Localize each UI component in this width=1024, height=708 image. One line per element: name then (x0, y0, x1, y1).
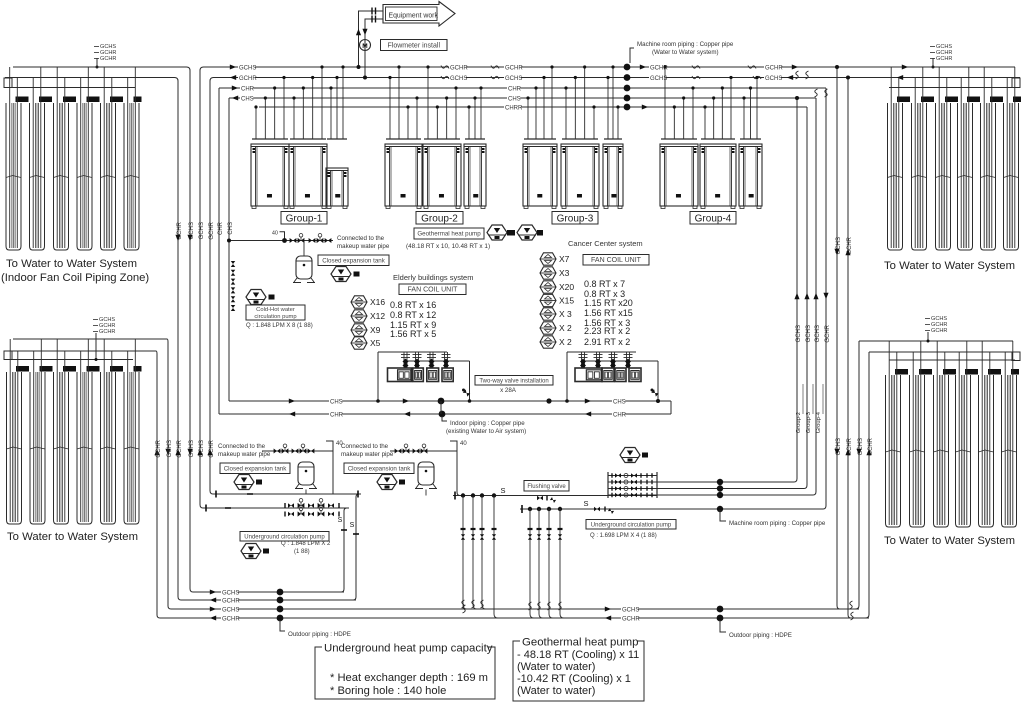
wire TR header line 3 (889, 87, 1015, 89)
break L2 x493 (491, 76, 499, 79)
borehole well TR3 (936, 103, 951, 250)
svg-text:CHS: CHS (241, 97, 254, 103)
well cap BL5 (110, 366, 123, 372)
svg-text:0.8 RT x 12: 0.8 RT x 12 (390, 310, 436, 320)
AHU box cancer 2 (602, 368, 614, 382)
svg-text:Underground circulation pump: Underground circulation pump (591, 522, 672, 528)
riser right x869 (865, 352, 869, 618)
arrow riser x848 (845, 249, 850, 255)
svg-text:GCHR: GCHR (222, 599, 240, 605)
label CHS mid2 (507, 95, 520, 103)
bracket TL header left (4, 78, 12, 88)
borehole well BR4 (956, 375, 971, 527)
svg-text:makeup water pipe: makeup water pipe (218, 451, 271, 458)
arrow br x837 (834, 449, 839, 455)
svg-text:Connected to the: Connected to the (341, 443, 389, 450)
svg-text:40: 40 (460, 441, 467, 447)
svg-text:Group-2: Group-2 (421, 213, 458, 224)
arrow y600 (210, 597, 216, 602)
pipe makeup top y240 (229, 240, 333, 242)
borehole well TR1 (888, 103, 903, 250)
pipe row4 right (657, 494, 813, 496)
svg-text:X15: X15 (559, 296, 574, 306)
break L2 x443 (441, 76, 449, 79)
pipe base stroke Group-1 U1 (252, 138, 288, 140)
label CHS mid (329, 398, 342, 406)
label GCHR right1 (649, 64, 666, 72)
pipe GCHS y592 (218, 591, 344, 593)
svg-text:To Water to Water System: To Water to Water System (6, 258, 137, 270)
svg-text:CHR: CHR (241, 87, 255, 93)
pipe makeup bl2 (390, 450, 457, 452)
svg-text:X3: X3 (559, 268, 570, 278)
machine room manifold row4 (608, 493, 657, 498)
pipe elderly manifold right drop (469, 361, 471, 401)
svg-text:CHS: CHS (508, 97, 521, 103)
arrow y609 (210, 606, 216, 611)
box geothermal heat pump (414, 228, 484, 239)
svg-text:Group-1: Group-1 (286, 213, 323, 224)
riser CHR x219 (218, 88, 220, 414)
wire drop bl2 (457, 451, 460, 496)
block pump cancer1 (507, 230, 515, 236)
fan coil cancer X 3 (540, 308, 556, 320)
svg-text:To Water to Water System: To Water to Water System (7, 531, 138, 543)
junction dot bus1 x627 (624, 64, 631, 71)
wire equipment left pipe 1 (359, 11, 384, 66)
pipe base stroke Group-3 U3 (604, 138, 622, 140)
riser pipes Group-2 U1 (388, 65, 418, 139)
svg-text:GCHR: GCHR (825, 324, 831, 342)
box underground heat pump capacity (315, 647, 495, 699)
bracket group labels (802, 384, 804, 414)
svg-text:Q : 1.848 LPM X 2: Q : 1.848 LPM X 2 (281, 541, 331, 547)
pipe base stroke Group-3 U2 (562, 138, 598, 140)
underground drop B1 (528, 507, 533, 610)
junction dot x280 y618 (277, 615, 284, 622)
box fan coil unit elderly (399, 284, 466, 295)
svg-text:- 48.18 RT (Cooling) x 11: - 48.18 RT (Cooling) x 11 (517, 649, 639, 661)
svg-text:GCHR: GCHR (100, 56, 116, 62)
label GCHR right2 (764, 64, 781, 72)
svg-text:(Indoor Fan Coil Piping Zone): (Indoor Fan Coil Piping Zone) (1, 272, 149, 284)
borehole well BR2 (910, 375, 925, 527)
svg-text:Outdoor piping : HDPE: Outdoor piping : HDPE (288, 631, 351, 638)
svg-text:GCHS: GCHS (450, 76, 467, 82)
pump cold-hot aux (331, 267, 351, 282)
node BL header label stub (95, 333, 97, 360)
pump underground L (241, 544, 261, 559)
label GCHR y618 (221, 615, 238, 623)
flange marks pipe1 (371, 8, 372, 15)
svg-text:M: M (362, 43, 367, 50)
svg-text:Cold-Hot water: Cold-Hot water (256, 307, 295, 313)
svg-text:CHS: CHS (613, 400, 626, 406)
break right riser 2 (806, 71, 809, 79)
svg-text:Equipment work: Equipment work (389, 13, 439, 20)
svg-text:Outdoor piping : HDPE: Outdoor piping : HDPE (729, 632, 792, 639)
heat pump unit Group-3 U2 (561, 144, 599, 209)
tick x344 (341, 529, 347, 531)
riser pipes Group-3 U1 (526, 65, 553, 139)
well cap BR1 (895, 369, 908, 375)
svg-text:X 2: X 2 (559, 323, 572, 333)
pipe cancer manifold header2 (583, 360, 658, 362)
svg-text:2.23 RT x 2: 2.23 RT x 2 (584, 326, 630, 336)
borehole well BR6 (1002, 375, 1017, 527)
bracket BL header left (4, 351, 12, 360)
svg-text:X 2: X 2 (559, 337, 572, 347)
box cold-hot pump (246, 305, 305, 320)
well cap TR2 (921, 97, 934, 103)
svg-text:Cancer Center system: Cancer Center system (568, 239, 643, 248)
wire BL header line 1 (13, 338, 167, 340)
borehole well BL4 (77, 372, 92, 524)
arrow y618 right (605, 615, 611, 620)
junction dot x720 y482 (717, 479, 723, 485)
svg-text:X 3: X 3 (559, 309, 572, 319)
junction dot x720 y609 (717, 606, 724, 613)
svg-text:0.8 RT x 7: 0.8 RT x 7 (584, 279, 625, 289)
svg-text:X5: X5 (370, 338, 381, 348)
wire machine note elbow (720, 510, 726, 521)
svg-text:(existing Water to Air system): (existing Water to Air system) (446, 428, 526, 435)
pipe base stroke Group-3 U1 (524, 138, 556, 140)
riser x356 (353, 494, 361, 600)
junction dot CHS x441 (438, 398, 445, 405)
pump bl1 (234, 475, 254, 490)
svg-text:-10.42 RT (Cooling) x 1: -10.42 RT (Cooling) x 1 (517, 673, 631, 685)
well cap BR5 (988, 369, 1001, 375)
valve stack cold-hot riser (231, 261, 236, 311)
riser right x797 (794, 98, 797, 482)
label CHR right (612, 411, 625, 419)
valve column elderly 3 (427, 352, 436, 369)
well cap TL2 (39, 97, 52, 103)
svg-text:S: S (338, 517, 343, 524)
well cap TR6 (1013, 97, 1021, 103)
wire BR header line 3 (889, 359, 1015, 361)
riser pipes Group-1 U1 (254, 76, 285, 139)
borehole well BR5 (979, 375, 994, 527)
well cap TL5 (110, 97, 123, 103)
node BR header label stub (927, 332, 929, 341)
heat pump unit Group-1 U2 (289, 144, 327, 209)
break L1 x443 (441, 66, 449, 69)
pipe row3 right (657, 488, 804, 490)
break L1 x696 (692, 66, 700, 69)
fan coil cancer X20 (540, 281, 556, 293)
svg-text:Indoor piping : Copper pipe: Indoor piping : Copper pipe (450, 420, 525, 427)
arrow lower x210 (207, 449, 212, 455)
valves y509 (594, 507, 600, 512)
tank expansion bl2 (415, 462, 437, 489)
borehole well BR3 (934, 375, 949, 527)
arrow br x848 (845, 449, 850, 455)
box flushing valve (524, 481, 569, 492)
wire BR well stubs (889, 341, 1013, 375)
riser right x859 (855, 341, 859, 609)
arrow y618 (210, 615, 216, 620)
bracket 40 bl2 (450, 441, 457, 451)
arrow br x869 (866, 449, 871, 455)
pipe elderly manifold header1 (378, 351, 447, 353)
AHU box cancer 4 (629, 368, 641, 382)
fan coil cancer X7 (540, 253, 556, 265)
label box Group-3 (552, 212, 598, 225)
arrow right riser3 (813, 293, 818, 299)
bends drops A (463, 601, 498, 618)
borehole well TL2 (30, 103, 45, 250)
break right riser 1 (796, 71, 799, 79)
tank expansion bl1 (295, 462, 317, 489)
svg-text:GCHS: GCHS (239, 66, 256, 72)
arrow pipe1 up (356, 29, 361, 35)
pipe TL header1 to south riser (13, 67, 218, 592)
fan coil elderly X5 (351, 337, 367, 349)
label CHR mid2 (507, 85, 520, 93)
pipe cancer manifold right drop (657, 361, 659, 401)
AHU box cancer 1 (575, 368, 602, 382)
wire outdoor note elbow right (720, 620, 726, 632)
junction dot CHS x549 (546, 398, 551, 403)
svg-text:CHR: CHR (613, 413, 627, 419)
svg-text:GCHS: GCHS (222, 608, 239, 614)
well cap BR6 (1011, 369, 1019, 375)
borehole well BL3 (54, 372, 69, 524)
fan coil cancer X 2 (540, 336, 556, 348)
riser pipes Group-1 U3 (329, 65, 344, 139)
block pump main (269, 295, 275, 300)
svg-text:CHS: CHS (228, 222, 234, 235)
riser pipes Group-2 U2 (426, 65, 457, 139)
pipe CHR y414 (219, 413, 671, 415)
arrow right riser4 (823, 293, 828, 299)
label box Group-4 (690, 212, 736, 225)
valve column cancer 3 (609, 352, 618, 369)
heat pump unit Group-2 U3 (464, 144, 486, 209)
arrow lower x168 (165, 449, 170, 455)
riser pipes Group-4 U3 (742, 76, 758, 139)
borehole well BL6 (124, 372, 139, 524)
wire indoor note elbow (442, 416, 447, 421)
svg-text:GCHR: GCHR (622, 617, 640, 623)
borehole well TR4 (958, 103, 973, 250)
wire CHS-CHR bridge x441 (440, 401, 442, 414)
wire TL header line 3 (9, 87, 135, 89)
fan coil cancer X3 (540, 267, 556, 279)
label box Group-1 (281, 212, 327, 225)
svg-text:GCHS: GCHS (765, 76, 782, 82)
well cap BL4 (87, 366, 100, 372)
pipe GCHR y618 long (218, 617, 869, 619)
break L1 x493 (491, 66, 499, 69)
pump cancer 2 (517, 225, 537, 240)
svg-text:makeup water pipe: makeup water pipe (337, 243, 390, 250)
label GCHR mid2 (504, 64, 521, 72)
svg-text:Geothermal heat pump: Geothermal heat pump (522, 637, 639, 649)
svg-text:GCHS: GCHS (806, 325, 812, 342)
svg-text:* Heat exchanger depth : 169 m: * Heat exchanger depth : 169 m (330, 672, 488, 684)
heat pump unit Group-2 U1 (385, 144, 422, 209)
riser right x837 (837, 67, 840, 609)
junction dot x720 y618 (717, 615, 724, 622)
break L2 x755 (753, 76, 761, 79)
box geothermal heat pump bottom (513, 641, 644, 701)
valve column cancer 2 (594, 352, 603, 369)
machine room manifold row1 (608, 473, 657, 478)
pipe manifold y508 (203, 507, 349, 509)
svg-text:(Water to water): (Water to water) (517, 661, 595, 673)
pump cold-hot main (246, 290, 266, 305)
AHU box cancer 3 (615, 368, 626, 382)
well cap BL1 (16, 366, 29, 372)
svg-text:Machine room piping : Copper p: Machine room piping : Copper pipe (729, 520, 826, 527)
svg-text:GCHR: GCHR (209, 221, 215, 239)
pipe bus CHRR L5 (259, 106, 807, 108)
label GCHS mid1 (449, 75, 466, 83)
svg-text:1.56 RT x15: 1.56 RT x15 (584, 308, 633, 318)
borehole well TR6 (1004, 103, 1019, 250)
box flowmeter install (381, 40, 448, 51)
label GCHS mid2 (504, 75, 521, 83)
svg-text:CHS: CHS (330, 400, 343, 406)
arrow lower x200 (197, 449, 202, 455)
block pump underground L (263, 549, 269, 554)
riser pipes Group-4 U2 (703, 76, 732, 139)
break L2 x696 (692, 76, 700, 79)
valve column cancer 4 (624, 352, 633, 369)
arrow CHS (289, 398, 295, 403)
svg-text:To Water to Water System: To Water to Water System (884, 260, 1015, 272)
svg-text:Closed expansion tank: Closed expansion tank (224, 465, 288, 472)
svg-text:Q : 1.848 LPM X 8 (1 88): Q : 1.848 LPM X 8 (1 88) (246, 323, 313, 329)
box closed expansion tank bl2 (344, 463, 414, 474)
heat pump unit Group-3 U3 (603, 144, 623, 209)
banner equipment work arrow (383, 2, 455, 27)
label box Group-2 (416, 212, 463, 225)
svg-text:Connected to the: Connected to the (337, 235, 385, 242)
svg-text:(Water to water): (Water to water) (517, 685, 595, 697)
svg-text:Flushing valve: Flushing valve (527, 484, 566, 490)
arrow CHS elderly (403, 398, 409, 403)
break bottom right corners (850, 601, 853, 609)
svg-text:GCHR: GCHR (765, 66, 783, 72)
arrow lower x190 (187, 449, 192, 455)
pipe GCHS y609 long (218, 608, 859, 610)
riser right x826 (823, 88, 826, 509)
bracket 40 top (280, 232, 285, 241)
well cap BR3 (943, 369, 956, 375)
svg-text:GCHR: GCHR (931, 328, 947, 334)
riser pipes Group-3 U3 (606, 65, 619, 139)
svg-text:CHRR: CHRR (505, 106, 523, 112)
junction dot CHS x658 (656, 399, 660, 403)
wire BL header line 2 (5, 350, 156, 352)
pipe row2 right (657, 481, 794, 483)
AHU box elderly 2 (413, 368, 424, 382)
svg-text:S: S (350, 522, 355, 529)
pipe base stroke Group-1 U2 (290, 138, 326, 140)
fan coil cancer X15 (540, 294, 556, 306)
arrow riser x190 (187, 235, 192, 241)
riser right x816 (813, 98, 816, 495)
arrow L1 x795 (792, 64, 798, 69)
underground drop B2 (537, 507, 542, 610)
borehole well TL5 (101, 103, 116, 250)
svg-text:GCHS: GCHS (796, 325, 802, 342)
pipe makeup line y494 (213, 493, 361, 495)
borehole well TL4 (77, 103, 92, 250)
tick x356 (353, 533, 359, 535)
svg-text:X20: X20 (559, 282, 574, 292)
pipe bus GCHS L1 with west riser (200, 67, 1015, 508)
pipe bus CHR L3 (219, 87, 826, 89)
box underground circulation pump R (586, 520, 676, 530)
well cap TR1 (897, 97, 910, 103)
label GCHS y609 right (621, 606, 638, 614)
svg-text:GCHS: GCHS (815, 325, 821, 342)
pipe bus GCHR L2 with west riser (210, 78, 1020, 495)
svg-text:1.15 RT x20: 1.15 RT x20 (584, 298, 633, 308)
well cap BL2 (40, 366, 53, 372)
manifold bracket left (607, 472, 609, 498)
heat pump unit Group-2 U2 (423, 144, 461, 209)
bracket TR header right (1012, 78, 1020, 88)
pipe CHS y401 (229, 400, 671, 402)
wire BL header line 3 (9, 359, 133, 361)
pipe GCHR y600 (218, 599, 356, 601)
arrow L2 x900 (897, 75, 903, 80)
block pump machine room (642, 453, 648, 458)
valves manifold y508 row2 (284, 507, 339, 517)
svg-text:X9: X9 (370, 325, 381, 335)
riser pipes Group-1 U2 (292, 65, 323, 139)
fan coil elderly X9 (351, 324, 367, 336)
pipe base stroke Group-4 U2 (701, 138, 735, 140)
wire outdoor note elbow left (280, 620, 285, 631)
underground drop A4 (492, 493, 497, 601)
svg-text:GCHS: GCHS (222, 591, 239, 597)
riser CHS x229 (228, 98, 230, 401)
svg-text:(Water to Water system): (Water to Water system) (652, 49, 719, 56)
pipe base stroke Group-4 U3 (740, 138, 761, 140)
arrow CHR elderly (404, 411, 410, 416)
label CHS L4 left (240, 95, 253, 103)
riser x344 (341, 508, 349, 592)
box fan coil unit cancer (583, 255, 649, 266)
borehole well TR5 (981, 103, 996, 250)
arrow lower x157 (154, 449, 159, 455)
arrow riser x178 (175, 235, 180, 241)
machine room manifold row2 (608, 480, 657, 485)
heat pump unit Group-1 U1 (251, 144, 289, 209)
svg-text:GCHR: GCHR (936, 56, 952, 62)
pipe makeup bl1 (262, 450, 333, 452)
arrow CHR (289, 411, 295, 416)
svg-text:Underground circulation pump: Underground circulation pump (244, 534, 325, 540)
riser BL-GCHS x168 (167, 339, 218, 609)
riser right x807 (804, 107, 807, 489)
svg-text:Closed expansion tank: Closed expansion tank (348, 465, 412, 472)
svg-text:FAN COIL UNIT: FAN COIL UNIT (591, 257, 642, 264)
underground drop A1 (461, 493, 466, 608)
well cap TR4 (967, 97, 980, 103)
pump machine room (620, 448, 640, 463)
svg-text:GCHR: GCHR (450, 66, 468, 72)
arrow CHS 2 (585, 398, 591, 403)
break right riser 3 (815, 89, 818, 97)
